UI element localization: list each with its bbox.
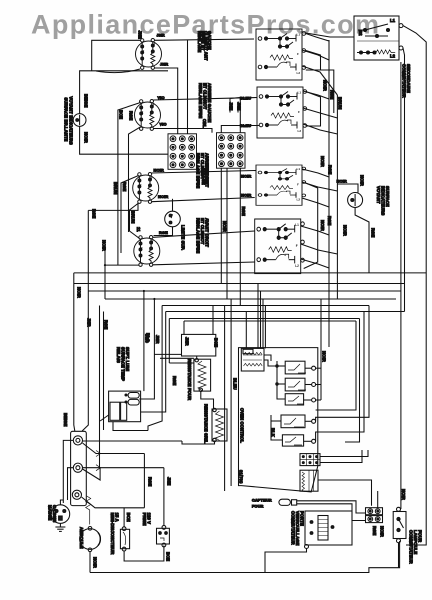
relay rect 5 bbox=[282, 435, 303, 446]
far right bus brun bbox=[406, 50, 426, 545]
terminal screw 1 bbox=[73, 436, 82, 445]
svg-text:NOIR: NOIR bbox=[154, 168, 164, 173]
svg-text:BLC: BLC bbox=[145, 334, 150, 343]
vertical noir inside right bbox=[320, 299, 322, 400]
svg-text:BRUN: BRUN bbox=[113, 182, 118, 195]
svg-text:AMPOULE: AMPOULE bbox=[79, 527, 84, 549]
wire B4 top-right to box4 bbox=[153, 231, 255, 237]
svg-text:NOIR: NOIR bbox=[158, 194, 168, 199]
svg-text:PRISE: PRISE bbox=[142, 513, 147, 526]
bus wire y273 bbox=[74, 272, 426, 274]
svg-text:11: 11 bbox=[136, 227, 141, 232]
wire limite bottom bbox=[154, 227, 173, 236]
svg-text:NOIR: NOIR bbox=[360, 175, 365, 186]
connector strip upper bbox=[300, 454, 320, 466]
svg-text:ET CLIGNOT: ET CLIGNOT bbox=[203, 83, 208, 110]
svg-text:NOIR: NOIR bbox=[320, 220, 325, 231]
svg-text:JNR: JNR bbox=[155, 335, 160, 344]
bus wire y321 bbox=[184, 320, 356, 322]
verrouillage comb bbox=[318, 516, 328, 541]
element switch box 4 bbox=[255, 219, 305, 274]
relay terminal circles bbox=[312, 366, 316, 370]
wire below block B left bbox=[220, 168, 222, 283]
wire L2 to bus bbox=[403, 48, 405, 62]
relais capsule 2 bbox=[128, 399, 139, 405]
svg-text:JNR: JNR bbox=[185, 337, 190, 346]
svg-text:NOIR: NOIR bbox=[241, 193, 251, 198]
vertical loop box3-box4 bbox=[304, 183, 318, 269]
wire indicator stem bottom bbox=[80, 126, 168, 154]
right bus 2 bbox=[404, 62, 406, 312]
left bus vertical x74 bbox=[74, 273, 75, 431]
svg-text:RGE: RGE bbox=[372, 526, 377, 535]
arrow joint bbox=[96, 465, 101, 471]
svg-text:NOIR: NOIR bbox=[380, 526, 385, 537]
svg-text:BCE: BCE bbox=[214, 338, 219, 347]
svg-text:VOYANT: VOYANT bbox=[376, 186, 381, 204]
relay rect 1 bbox=[285, 361, 305, 374]
wires capteur right bbox=[297, 501, 366, 513]
wire B4 bottom-left riser noir bbox=[105, 265, 139, 299]
wire box1 t3 down bbox=[321, 70, 334, 113]
wire drop x154 bbox=[139, 299, 154, 399]
wire B1 bottom-right run bbox=[154, 68, 177, 134]
svg-text:BLK: BLK bbox=[271, 428, 276, 437]
svg-text:REGLAGE INFINI: REGLAGE INFINI bbox=[198, 83, 203, 118]
svg-text:CBL: CBL bbox=[202, 119, 207, 128]
vertical relais to fan bbox=[99, 306, 101, 468]
commutateur lampoule four switch bbox=[393, 512, 406, 539]
svg-text:SURFACE BR.LANTE: SURFACE BR.LANTE bbox=[63, 98, 68, 142]
prise 120V bbox=[157, 528, 170, 544]
wire lamp top feed bbox=[337, 184, 358, 193]
wire relais to fan vertical bbox=[100, 415, 109, 421]
wire four bottom bbox=[201, 392, 214, 410]
burner switch B4 (front right) bbox=[134, 236, 160, 267]
svg-text:COMMUTATEUR: COMMUTATEUR bbox=[409, 530, 414, 564]
wire relais bottom loop bbox=[113, 422, 148, 431]
bus wire y283 bbox=[74, 283, 405, 285]
wire four top bbox=[196, 356, 198, 359]
oven control connector bbox=[241, 348, 264, 371]
capteur capsule bbox=[279, 499, 291, 505]
right verticals into oven bbox=[316, 321, 356, 410]
small rect top bbox=[243, 349, 253, 353]
burner switch B3 (rear right) bbox=[133, 173, 159, 204]
svg-text:NOIR: NOIR bbox=[343, 225, 348, 236]
terminal 2x2 block row2 bbox=[366, 516, 383, 523]
wires relay to right verticals bbox=[305, 367, 312, 369]
wire block left down 2 bbox=[68, 468, 74, 500]
relay left feed wires bbox=[277, 361, 285, 399]
svg-text:RGE: RGE bbox=[371, 228, 376, 237]
svg-text:RGE: RGE bbox=[92, 209, 97, 218]
svg-text:BCE: BCE bbox=[119, 110, 124, 119]
ampoule lamp bbox=[80, 529, 101, 550]
svg-text:JNE: JNE bbox=[229, 102, 234, 111]
connector block B bbox=[217, 133, 246, 169]
svg-text:JNR: JNR bbox=[157, 33, 165, 38]
secondaire internals bbox=[357, 18, 399, 59]
wire below block B right bbox=[239, 168, 241, 305]
svg-text:FOUR: FOUR bbox=[418, 530, 423, 542]
wire L1 to right bus bbox=[403, 26, 426, 50]
right bus noir main bbox=[400, 62, 402, 509]
svg-text:OVEN CONTROL: OVEN CONTROL bbox=[240, 408, 245, 443]
wires strip upper right bbox=[320, 450, 368, 457]
svg-text:NOIR: NOIR bbox=[401, 489, 406, 500]
wire plug stem bbox=[60, 500, 63, 505]
wire B4 bottom-right bbox=[153, 262, 255, 265]
wire strip lower right bbox=[318, 480, 372, 506]
svg-text:COMMUTATEUR: COMMUTATEUR bbox=[291, 511, 296, 545]
oven control big box bbox=[239, 348, 318, 492]
svg-text:NOIR: NOIR bbox=[320, 156, 325, 167]
svg-text:LIMITE SUP.: LIMITE SUP. bbox=[181, 225, 186, 250]
terminal block cordon bbox=[71, 431, 87, 505]
element switch box 1 bbox=[256, 29, 306, 80]
wire bleu lower bbox=[221, 126, 259, 133]
wire lamp to bus bbox=[89, 552, 91, 573]
wire fan screw2 right bbox=[83, 467, 164, 469]
svg-text:RESISTANCE GRIL: RESISTANCE GRIL bbox=[204, 404, 209, 444]
wire verrouillage to bus bbox=[265, 549, 307, 573]
limite sup thermostat bbox=[165, 211, 181, 227]
svg-text:NOIR: NOIR bbox=[241, 174, 251, 179]
svg-text:91/738: 91/738 bbox=[239, 470, 244, 484]
arrow joint bbox=[96, 451, 101, 457]
wire noir riser up bbox=[104, 244, 106, 265]
element switch box 3 bbox=[256, 165, 306, 205]
comb to relay wires bbox=[264, 355, 271, 361]
wire B1 bottom-left curve bbox=[96, 69, 140, 73]
wire limite top bbox=[172, 199, 174, 211]
wire B3 top-right to box3 bbox=[152, 171, 257, 174]
wire screw3 zigzag to lamp bbox=[86, 496, 91, 525]
relais box bbox=[109, 391, 141, 422]
terminal 2x2 block row1 bbox=[366, 508, 383, 515]
bus wire y291 bbox=[88, 290, 401, 292]
bus wire y311 bbox=[166, 311, 405, 313]
svg-text:15 A: 15 A bbox=[115, 513, 120, 522]
wire drop x165 bbox=[141, 312, 166, 413]
svg-text:BCE: BCE bbox=[126, 513, 131, 522]
wire B3 bottom-left to B4 bbox=[130, 203, 140, 239]
wire bleu riser to block B bbox=[239, 98, 241, 133]
svg-text:120 V: 120 V bbox=[147, 513, 152, 525]
svg-text:AVANT DROIT: AVANT DROIT bbox=[205, 218, 210, 247]
heater feed horizontals bbox=[154, 353, 181, 355]
bus wire y318 bbox=[169, 318, 359, 320]
wire breaker top bbox=[123, 508, 125, 527]
svg-text:RGE: RGE bbox=[241, 207, 246, 216]
right vertical bus rge bbox=[336, 95, 338, 299]
svg-text:SURFACE TEMP: SURFACE TEMP bbox=[121, 347, 126, 381]
svg-text:NOIR: NOIR bbox=[337, 179, 347, 184]
svg-text:JNE: JNE bbox=[167, 477, 172, 486]
svg-text:NOIR: NOIR bbox=[102, 240, 107, 251]
svg-text:RGE: RGE bbox=[104, 320, 109, 329]
voyant surface indicator lamp bbox=[73, 114, 86, 127]
wire B2 left loop RGE bbox=[129, 127, 141, 232]
svg-text:NOIR: NOIR bbox=[322, 351, 327, 362]
wire rge corner left bbox=[88, 203, 138, 210]
short vertical loop box2 bbox=[306, 92, 321, 127]
wire B2 bottom-right bbox=[153, 129, 212, 133]
wire blc drop bbox=[143, 291, 145, 391]
svg-text:RGE: RGE bbox=[148, 477, 153, 486]
svg-text:SECONDAIRE: SECONDAIRE bbox=[406, 64, 411, 93]
wire lamp bottom bbox=[355, 208, 369, 273]
svg-text:CAPTEUR: CAPTEUR bbox=[252, 498, 272, 503]
wire B1 top-right to box1 bbox=[154, 39, 254, 40]
svg-text:SURFACE: SURFACE bbox=[385, 186, 390, 207]
svg-text:NOIR: NOIR bbox=[323, 80, 328, 91]
voyant indicateurs surface right lamp bbox=[348, 193, 363, 208]
verrouillage terminal bbox=[305, 545, 309, 549]
svg-text:CA.SSIS: CA.SSIS bbox=[52, 505, 57, 523]
resistance four element bbox=[194, 359, 211, 391]
burner switch B2 (front left) bbox=[135, 100, 161, 131]
secondaire terminal L2 bbox=[399, 46, 403, 50]
left bus vertical x88 bbox=[82, 210, 88, 431]
wire B1 top-left feed bbox=[92, 40, 141, 71]
svg-text:RIE 100: RIE 100 bbox=[205, 168, 210, 184]
wire drop x162 bbox=[148, 306, 162, 431]
svg-text:BEIGE: BEIGE bbox=[63, 413, 68, 427]
svg-text:VERROUILLAGE: VERROUILLAGE bbox=[295, 511, 300, 546]
svg-text:RGE: RGE bbox=[327, 216, 332, 225]
wire box1 right diagonals bbox=[306, 34, 329, 42]
svg-text:JNR: JNR bbox=[87, 318, 92, 327]
secondaire terminal L1 bbox=[399, 24, 403, 28]
connector strip lower bbox=[300, 470, 318, 491]
svg-text:RGE: RGE bbox=[129, 111, 134, 120]
resistance four junction box bbox=[182, 334, 216, 356]
right vertical bus noir bbox=[328, 40, 330, 347]
wires into connector from bus bbox=[257, 284, 259, 349]
vertical rge left bbox=[103, 312, 105, 431]
relais inner rect 1 bbox=[110, 402, 120, 420]
wire below block B mid bbox=[226, 168, 228, 299]
wire indicator stem top bbox=[80, 71, 168, 114]
commutateur verrouillage porte box bbox=[305, 511, 352, 545]
svg-text:MINI-DISJONCTEUR: MINI-DISJONCTEUR bbox=[110, 513, 115, 555]
relay rect 2 bbox=[285, 378, 305, 391]
wire block left down 1 bbox=[63, 440, 73, 503]
wire screw3 breaker feed bbox=[82, 497, 145, 508]
wire jne risers to block B bbox=[230, 98, 240, 113]
svg-text:BEIGE: BEIGE bbox=[84, 94, 89, 108]
wire box3 right diagonals bbox=[302, 169, 329, 177]
svg-text:RGE: RGE bbox=[328, 165, 333, 174]
ground symbol bbox=[59, 523, 61, 527]
short vertical loop box1 bbox=[306, 51, 321, 71]
mini-disjoncteur bbox=[120, 529, 129, 548]
lamp switch terminal bottom bbox=[397, 539, 401, 543]
element switch box 2 bbox=[257, 87, 307, 138]
wire disjoncteur bottom loop bbox=[124, 546, 164, 562]
svg-text:NOIR: NOIR bbox=[77, 287, 82, 298]
wire bleu bbox=[230, 299, 232, 486]
svg-text:JNR: JNR bbox=[160, 62, 168, 67]
terminal screw 2 bbox=[73, 463, 82, 472]
svg-text:RGE: RGE bbox=[122, 182, 127, 191]
svg-text:INDICATEURS: INDICATEURS bbox=[381, 186, 386, 216]
svg-text:PORTE: PORTE bbox=[300, 511, 305, 526]
bottom bus wire bbox=[90, 541, 400, 573]
wire disj vertical bbox=[143, 454, 145, 508]
svg-text:ET CLIGNOT: ET CLIGNOT bbox=[200, 218, 205, 245]
svg-text:BRUN: BRUN bbox=[131, 211, 136, 224]
relais inner rect 2 bbox=[121, 402, 127, 420]
wire box2 right diagonals bbox=[303, 91, 329, 99]
svg-text:NOIR: NOIR bbox=[222, 221, 227, 232]
masse chassis plug bbox=[51, 505, 70, 524]
svg-text:RGE: RGE bbox=[172, 376, 177, 385]
wire box1 to secondaire bbox=[306, 33, 354, 37]
svg-text:L1: L1 bbox=[390, 18, 396, 23]
resistance gril element bbox=[212, 409, 227, 441]
wire B2 top-right to box2 bbox=[153, 98, 257, 101]
wire jnr drop to block A bbox=[187, 40, 189, 134]
wire lamp switch bottom bbox=[398, 543, 400, 568]
svg-text:SUPT. LUMI: SUPT. LUMI bbox=[125, 347, 130, 371]
svg-text:BCE: BCE bbox=[166, 552, 171, 561]
wires from relay terminals right bbox=[316, 367, 321, 369]
wire box4 right diagonals bbox=[301, 226, 329, 235]
svg-text:NOIR: NOIR bbox=[84, 132, 89, 143]
burner switch B1 (rear left) bbox=[136, 39, 162, 70]
wire B3 left loop bbox=[121, 176, 139, 254]
svg-text:L2: L2 bbox=[390, 54, 396, 59]
svg-text:MASSE: MASSE bbox=[48, 505, 53, 520]
bus wire y305 bbox=[162, 305, 369, 307]
wire fan screw1 diag bbox=[83, 443, 145, 454]
bus wire y299 bbox=[105, 298, 396, 300]
wire drop x169 bbox=[168, 319, 170, 364]
wire screw2 diag bbox=[83, 468, 101, 480]
relay rect 4 bbox=[281, 415, 305, 428]
wire B3 bottom-right noir bbox=[151, 198, 254, 202]
connector block A bbox=[168, 134, 197, 170]
svg-text:RELAIS: RELAIS bbox=[116, 347, 121, 363]
svg-text:NOIR: NOIR bbox=[93, 557, 98, 568]
relay rect 3 bbox=[285, 394, 303, 405]
svg-text:JNE: JNE bbox=[138, 31, 143, 40]
commutateur secondaire box bbox=[354, 16, 399, 60]
svg-text:REGLAGE INFINI: REGLAGE INFINI bbox=[196, 218, 201, 253]
svg-text:RESISTANCE FOUR: RESISTANCE FOUR bbox=[187, 359, 192, 400]
lamp switch terminal top bbox=[397, 507, 401, 511]
relais capsule 1 bbox=[128, 393, 139, 399]
wire box risers bbox=[183, 321, 185, 334]
svg-text:ARRIERE GAUCHE: ARRIERE GAUCHE bbox=[207, 83, 212, 123]
svg-text:LAMPOULE: LAMPOULE bbox=[413, 530, 418, 554]
terminal screw 3 bbox=[72, 490, 81, 499]
wire 2x2 up bbox=[377, 491, 379, 508]
svg-text:BLEU: BLEU bbox=[240, 95, 251, 100]
svg-text:RGE: RGE bbox=[159, 230, 168, 235]
svg-text:VIO: VIO bbox=[160, 122, 167, 127]
svg-text:FOUR: FOUR bbox=[252, 504, 264, 509]
junction dots bbox=[104, 264, 278, 367]
svg-text:GAUCHE: GAUCHE bbox=[207, 31, 212, 50]
svg-text:B2: B2 bbox=[358, 30, 363, 36]
svg-text:BRUN: BRUN bbox=[338, 97, 343, 110]
wire fan screw1 right bbox=[83, 440, 183, 442]
long wire left of oven box bbox=[224, 306, 226, 492]
svg-text:BLEU: BLEU bbox=[233, 378, 238, 390]
wire gril bottom to terminal bbox=[182, 441, 215, 444]
wire prise top bbox=[163, 468, 165, 526]
wire B2 left loop BCE bbox=[118, 103, 141, 266]
